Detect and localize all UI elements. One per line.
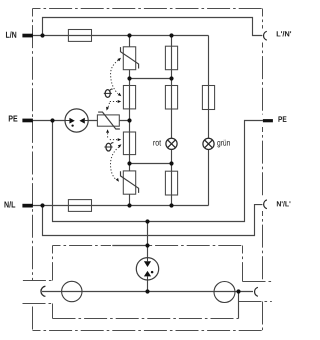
terminal arc L-prime/N-prime (264, 31, 267, 40)
module box right edge (242, 246, 244, 282)
label L/N (6, 31, 16, 37)
module box stub right lower (239, 301, 272, 303)
module box stub left lower (23, 303, 53, 305)
lamp rot (166, 138, 177, 149)
lamp gruen (203, 138, 214, 149)
module box stub left upper (23, 280, 53, 282)
junction PE run - center drop (145, 219, 149, 223)
junction N/L terminal node (40, 203, 44, 207)
wire L/N bus (33, 35, 209, 37)
wire right contact drop (238, 292, 240, 319)
label N'/L' (277, 201, 291, 207)
junction L/N bus - column 1 (127, 33, 131, 37)
varistor V2 column1 bottom (121, 171, 139, 194)
resistor R2b column2 (165, 86, 177, 110)
resistor R1c column1 (123, 132, 135, 155)
fuse F2 in N/L line (68, 200, 91, 212)
resistor R2a column2 (165, 46, 177, 69)
arrowhead lower theta to disconnector (106, 129, 109, 133)
wire center drop to bottom section (147, 222, 149, 292)
resistor R2c column2 (165, 171, 177, 195)
wire PE bus (33, 120, 130, 122)
terminal arc bottom-left (41, 286, 45, 296)
module box bottom edge (53, 318, 239, 320)
junction col1-col2 link left (127, 76, 131, 80)
label N/L (4, 201, 15, 207)
fuse F1 in L/N line (68, 30, 91, 42)
module box top edge right part (148, 245, 243, 247)
wire N/L bus (33, 205, 209, 207)
terminal bar PE-prime right (263, 119, 273, 122)
wire column 1 (129, 36, 131, 206)
arrowhead lower theta to resistor R1c side (118, 138, 122, 141)
wire link col1-col2 lower (130, 163, 172, 165)
arrowhead lower theta to resistor R1c bottom (118, 144, 122, 147)
theta upper (104, 89, 113, 97)
resistor R1b column1 (123, 86, 135, 109)
junction col1-col2 link right (169, 76, 173, 80)
module box stub right upper (243, 281, 272, 283)
spark gap GDT2 vertical bottom (136, 258, 158, 280)
dashed arrow upper theta to R1b (110, 101, 117, 103)
resistor R3 column3 (202, 86, 214, 110)
varistor V1 column1 top (121, 47, 139, 70)
spark gap GDT1 horizontal (65, 109, 88, 132)
terminal bar L/N (22, 34, 33, 38)
terminal bar N/L (22, 204, 33, 208)
enclosure border bottom (33, 330, 263, 332)
junction bottom contact line center (145, 289, 149, 293)
thermal disconnector (97, 112, 120, 129)
wire column 3 (208, 36, 210, 206)
arrowhead lower theta to varistor V2 (116, 178, 119, 182)
junction PE bus - column 1 (127, 118, 131, 122)
label gruen (217, 140, 230, 148)
enclosure border left (32, 9, 34, 281)
wire column 2 (171, 36, 173, 206)
junction N/L bus - column 1 (127, 203, 131, 207)
wire bottom contact line (42, 291, 253, 293)
wire stub on module box top edge (112, 245, 147, 247)
junction PE bus left (50, 118, 54, 122)
junction col1 lower link left (127, 161, 131, 165)
label rot (153, 140, 161, 146)
arrowhead upper theta to resistor R1b top (118, 93, 122, 96)
junction L/N terminal node (40, 33, 44, 37)
junction N/L bus - column 2 (169, 203, 173, 207)
dashed arc upper theta V1-R1b (111, 60, 119, 93)
dashed arc lower theta R1c-V2 (110, 147, 118, 179)
enclosure border top (33, 8, 263, 10)
arrowhead upper theta to disconnector (106, 107, 109, 111)
junction bottom contact line right (236, 289, 240, 293)
module box left lower edge (52, 304, 54, 319)
wire PE down-across-up to PE-prime (53, 121, 263, 222)
module box left edge (52, 246, 54, 281)
dashed arrow lower theta to disconnector (107, 133, 109, 138)
enclosure border left lower (32, 304, 34, 330)
wire L/N to L-prime/N-prime direct top link (43, 18, 263, 36)
enclosure border right (with terminal gaps) (262, 9, 264, 29)
contact circle left (62, 281, 82, 301)
enclosure border right lower (262, 302, 264, 331)
wire link col1-col2 upper (130, 78, 172, 80)
module box top edge left part (53, 245, 112, 247)
label PE right (278, 116, 286, 122)
wire N/L down-across-up to N-prime/L-prime (43, 205, 263, 236)
junction module box top edge (145, 243, 149, 247)
junction col1 lower link right (169, 161, 173, 165)
arrowhead upper theta to varistor V1 (117, 58, 121, 62)
label L'/N' (277, 31, 291, 37)
junction L/N bus - column 2 (169, 33, 173, 37)
terminal bar PE left (22, 119, 33, 123)
dashed arrow lower theta to R1c (110, 139, 117, 141)
dashed arrow upper theta to disconnector (108, 103, 110, 108)
arrowhead upper theta to resistor R1b side (118, 100, 122, 103)
terminal arc N-prime/L-prime (264, 200, 267, 209)
contact circle right (214, 282, 235, 303)
theta lower (104, 143, 113, 151)
terminal arc bottom-right (255, 287, 258, 296)
label PE left (9, 116, 18, 122)
